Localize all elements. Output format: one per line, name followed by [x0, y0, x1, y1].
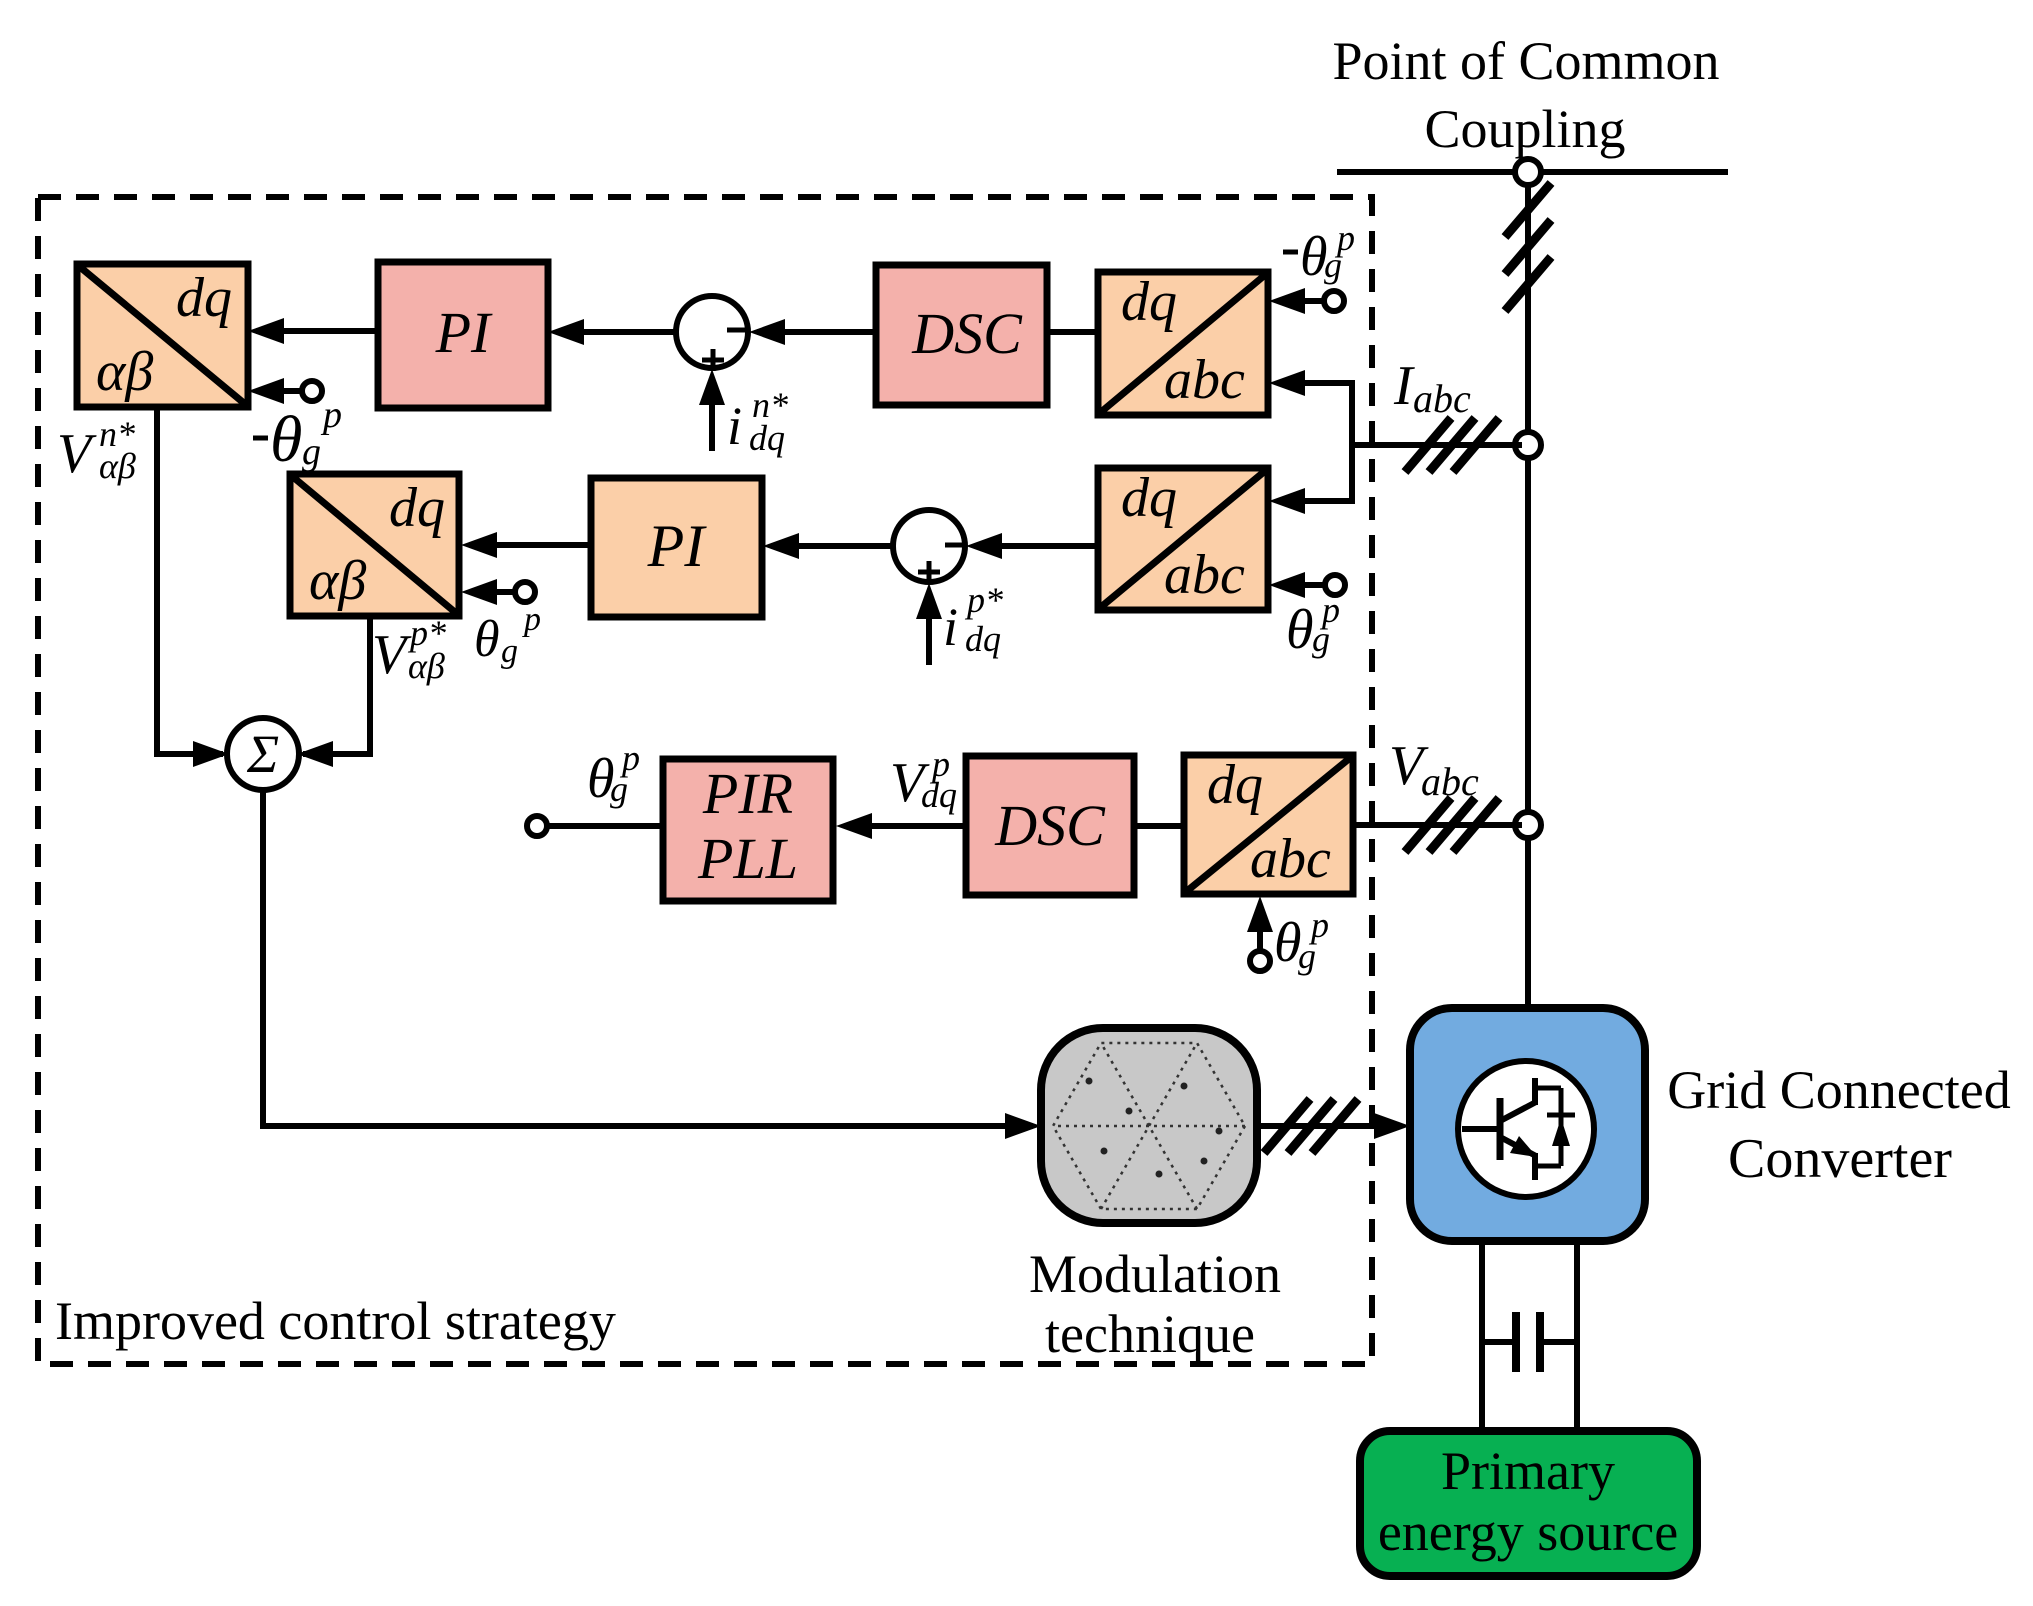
wire: V_alphabeta_p* into Sigma: [303, 616, 370, 754]
svg-text:p: p: [1319, 590, 1340, 630]
svg-text:θ: θ: [1286, 599, 1314, 661]
block: modulation technique (space vector): [1041, 1028, 1257, 1223]
converter IGBT circle: [1458, 1061, 1594, 1197]
svg-text:p: p: [522, 601, 541, 638]
wire: DC link left rail: [1479, 1241, 1485, 1431]
svg-text:p: p: [1308, 905, 1329, 945]
terminal: theta_g_p PLL output: [527, 816, 547, 836]
block T1: dq to alpha-beta transform (negative sequence): [77, 264, 248, 407]
svg-text:αβ: αβ: [96, 341, 153, 403]
svg-text:dq: dq: [1121, 467, 1177, 529]
svg-text:dq: dq: [965, 619, 1001, 659]
space vector hexagon sketch: [1053, 1043, 1245, 1209]
wire: vertical feeder from PCC down to converter: [1525, 172, 1531, 1008]
svg-text:abc: abc: [1164, 349, 1245, 411]
terminal: theta_g_p input to A2: [1325, 575, 1345, 595]
wire: PI1 to T1: [256, 328, 378, 334]
svg-text:DSC: DSC: [911, 301, 1023, 366]
wire: V_alphabeta_n* into Sigma: [157, 407, 223, 754]
summer S1: [676, 296, 748, 368]
svg-text:p: p: [320, 394, 342, 436]
block A1: abc to dq transform (current, negative): [1098, 272, 1268, 415]
block DSC2: delayed signal cancellation (voltage): [966, 756, 1134, 895]
block PI2: positive-seq PI regulator: [591, 478, 762, 617]
label: -theta_g_p (T1 angle): [253, 436, 268, 441]
wire: A2 to S2: [975, 543, 1098, 549]
node: current measurement tap: [1515, 432, 1541, 458]
wire: current branch into A2 dq input: [1278, 498, 1352, 504]
svg-text:i: i: [943, 597, 958, 657]
svg-text:PIR: PIR: [702, 761, 793, 826]
wire: I_abc measurement branch: [1349, 380, 1355, 504]
svg-text:θ: θ: [270, 403, 302, 476]
svg-text:p*: p*: [964, 580, 1003, 620]
svg-text:dq: dq: [921, 775, 957, 815]
wire: current branch into A1 abc input: [1278, 380, 1352, 386]
svg-text:dq: dq: [389, 477, 445, 539]
summer Sigma: [227, 718, 299, 790]
svg-text:Modulation: Modulation: [1029, 1244, 1281, 1304]
svg-text:abc: abc: [1250, 828, 1331, 890]
svg-text:DSC: DSC: [994, 793, 1106, 858]
wire+arrow: i_dq_p* reference into S2: [926, 614, 932, 665]
svg-text:I: I: [1393, 355, 1415, 417]
svg-text:Grid Connected: Grid Connected: [1667, 1060, 2010, 1120]
wire: A3 to DSC2: [1134, 823, 1184, 829]
svg-text:technique: technique: [1045, 1304, 1255, 1364]
svg-text:V: V: [372, 624, 412, 686]
svg-text:Coupling: Coupling: [1424, 99, 1625, 159]
wire: modulation output to converter: [1257, 1123, 1400, 1129]
block: primary energy source (green): [1360, 1431, 1697, 1576]
terminal: -theta_g_p input to T1: [302, 381, 322, 401]
summer S2: [893, 510, 965, 582]
capacitor: DC link: [1482, 1339, 1512, 1345]
block DSC1: delayed signal cancellation (current): [876, 265, 1047, 405]
slashes: three-phase marks on feeder: [1505, 183, 1551, 237]
wire: A1 to DSC1: [1047, 329, 1098, 335]
svg-text:energy source: energy source: [1378, 1502, 1678, 1562]
wire: DSC2 to PIR PLL: [845, 823, 966, 829]
svg-text:abc: abc: [1164, 544, 1245, 606]
dashed boundary: Improved control strategy region: [38, 197, 1372, 1364]
wire: V_abc from node into A3: [1353, 822, 1522, 828]
svg-text:αβ: αβ: [99, 446, 136, 486]
svg-text:αβ: αβ: [309, 550, 366, 612]
svg-text:dq: dq: [1207, 754, 1263, 816]
node: PCC connection: [1515, 159, 1541, 185]
terminal+arrow: theta_g_p input to A3: [1250, 951, 1270, 971]
svg-text:dq: dq: [1121, 271, 1177, 333]
svg-text:Converter: Converter: [1728, 1128, 1952, 1190]
svg-text:PI: PI: [435, 300, 493, 365]
wire: DSC1 to S1: [757, 329, 876, 335]
svg-text:p: p: [1334, 218, 1355, 258]
wire: DC link right rail: [1574, 1241, 1580, 1431]
svg-text:g: g: [501, 633, 518, 670]
svg-text:PLL: PLL: [697, 826, 798, 891]
svg-text:V: V: [57, 423, 97, 485]
svg-text:θ: θ: [474, 611, 500, 668]
svg-text:dq: dq: [176, 267, 232, 329]
svg-text:p: p: [619, 738, 640, 778]
block: grid connected converter (blue): [1410, 1008, 1645, 1241]
wire: PI2 to T2: [469, 542, 591, 548]
block A3: abc to dq transform (voltage): [1184, 755, 1353, 894]
label: -theta_g_p (A1 angle): [1283, 250, 1298, 255]
wire: S1 to PI1: [557, 329, 676, 335]
svg-text:i: i: [727, 396, 742, 456]
svg-text:αβ: αβ: [408, 646, 445, 686]
slashes: modulation three-phase gating: [1264, 1099, 1310, 1153]
wire: PCC bus bar: [1337, 169, 1728, 175]
IGBT symbol: [1462, 1126, 1500, 1132]
block PI1: negative-seq PI regulator: [378, 262, 548, 408]
svg-text:abc: abc: [1413, 376, 1471, 421]
block PIR PLL: [663, 759, 833, 901]
svg-text:Improved control strategy: Improved control strategy: [55, 1291, 616, 1351]
svg-text:Point of Common: Point of Common: [1332, 31, 1719, 91]
slashes: I_abc three-phase marks: [1405, 418, 1451, 472]
slashes: V_abc three-phase marks: [1405, 798, 1451, 852]
wire+arrow: i_dq_n* reference into S1: [709, 400, 715, 451]
block T2: dq to alpha-beta transform (positive sequence): [290, 474, 459, 616]
svg-text:dq: dq: [749, 418, 785, 458]
wire: S2 to PI2: [771, 543, 893, 549]
wire: Sigma output to modulation block: [263, 790, 1033, 1126]
svg-text:PI: PI: [647, 513, 708, 579]
svg-text:g: g: [302, 431, 321, 473]
block A2: abc to dq transform (current, positive): [1098, 468, 1268, 610]
terminal: theta_g_p input to T2: [515, 582, 535, 602]
node: voltage measurement tap: [1515, 812, 1541, 838]
terminal: -theta_g_p input to A1: [1324, 291, 1344, 311]
svg-text:Σ: Σ: [246, 724, 279, 784]
svg-text:Primary: Primary: [1441, 1441, 1615, 1501]
